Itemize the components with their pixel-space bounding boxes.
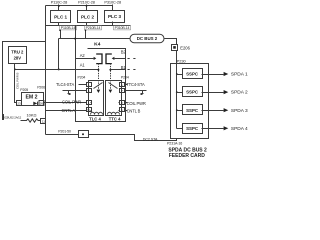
svg-text:22: 22	[87, 109, 91, 113]
svg-text:COIL PWR B: COIL PWR B	[15, 72, 19, 89]
svg-text:P110C-28: P110C-28	[51, 0, 67, 5]
svg-text:K4: K4	[94, 41, 101, 47]
svg-text:P204: P204	[121, 75, 129, 79]
svg-text:P110B-14: P110B-14	[61, 26, 76, 30]
svg-text:SPDA 4: SPDA 4	[231, 126, 248, 132]
svg-text:P201-50: P201-50	[58, 129, 71, 133]
svg-text:E206: E206	[180, 46, 190, 51]
svg-text:DCBUS2 2A/12: DCBUS2 2A/12	[3, 116, 22, 120]
svg-text:SSPC: SSPC	[186, 90, 199, 95]
svg-text:TLC4-STA: TLC4-STA	[56, 82, 74, 87]
svg-text:FEEDER CARD: FEEDER CARD	[169, 153, 206, 159]
svg-text:P310C-28: P310C-28	[104, 0, 121, 5]
svg-text:A2: A2	[80, 53, 86, 58]
svg-text:TTC4-STA: TTC4-STA	[126, 82, 145, 87]
svg-text:B2: B2	[121, 50, 127, 55]
svg-text:28V: 28V	[14, 56, 22, 61]
svg-text:23: 23	[17, 101, 21, 105]
svg-text:COIL PWR: COIL PWR	[127, 101, 146, 106]
svg-text:P310B-14: P310B-14	[115, 26, 130, 30]
svg-text:26: 26	[40, 101, 44, 105]
svg-text:11: 11	[42, 119, 45, 123]
svg-text:CNTL B: CNTL B	[127, 109, 141, 114]
svg-text:COIL PWR: COIL PWR	[62, 100, 81, 105]
svg-text:CNTL A: CNTL A	[62, 108, 76, 113]
svg-text:DC2 STA: DC2 STA	[143, 137, 158, 141]
svg-text:P205: P205	[20, 88, 28, 92]
svg-text:P210C-28: P210C-28	[78, 0, 95, 5]
svg-text:TLC 4: TLC 4	[89, 116, 101, 121]
svg-text:TTC 4: TTC 4	[109, 116, 121, 121]
svg-text:P204: P204	[78, 75, 86, 79]
svg-text:TRU 2: TRU 2	[11, 50, 24, 55]
svg-text:10KΩ: 10KΩ	[26, 112, 36, 117]
svg-text:P231A-16: P231A-16	[167, 142, 182, 146]
svg-text:P206: P206	[37, 86, 45, 90]
svg-text:SPDA 1: SPDA 1	[231, 72, 248, 78]
svg-text:EM 2: EM 2	[25, 95, 37, 101]
svg-text:SSPC: SSPC	[186, 72, 199, 77]
svg-text:B1: B1	[121, 65, 127, 70]
svg-text:SSPC: SSPC	[186, 108, 199, 113]
svg-text:SPDA 2: SPDA 2	[231, 90, 248, 96]
svg-text:PLC 3: PLC 3	[108, 14, 121, 19]
svg-text:PLC 2: PLC 2	[81, 15, 94, 20]
svg-text:P230: P230	[177, 59, 187, 64]
svg-text:PLC 1: PLC 1	[54, 15, 67, 20]
svg-text:P210B-14: P210B-14	[86, 26, 101, 30]
svg-text:SSPC: SSPC	[186, 126, 199, 131]
svg-text:DC BUS 2: DC BUS 2	[137, 36, 158, 41]
svg-text:SPDA 3: SPDA 3	[231, 108, 248, 114]
svg-text:A1: A1	[80, 63, 86, 68]
